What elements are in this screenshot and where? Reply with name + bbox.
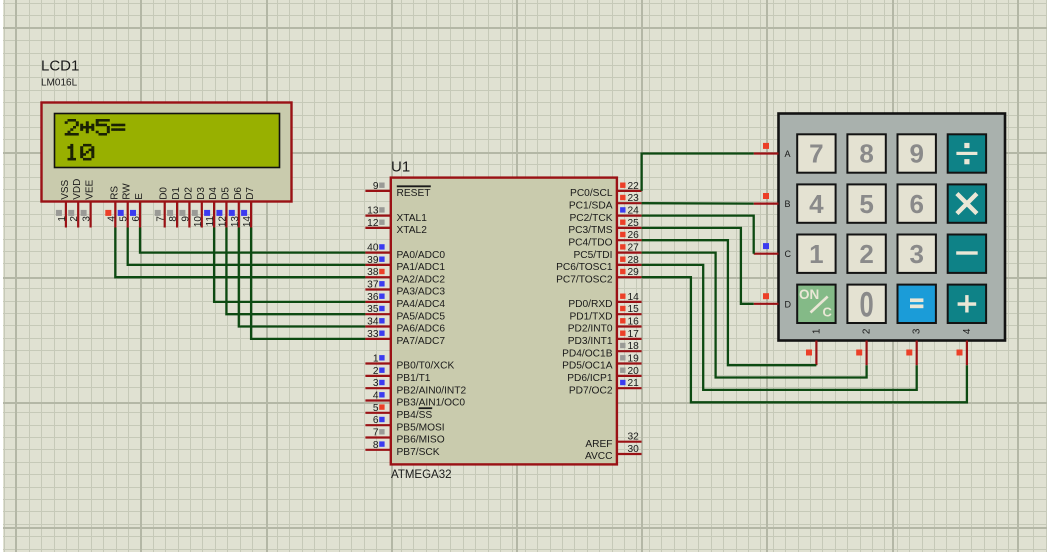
keypad row pin D	[754, 293, 792, 309]
U1 pin 30 (AVCC) right	[585, 444, 642, 462]
U1 pin 2 (PB1/T1) left	[365, 366, 430, 384]
svg-text:PC0/SCL: PC0/SCL	[570, 188, 613, 199]
svg-text:14: 14	[242, 216, 253, 228]
keypad button minus	[948, 235, 986, 273]
svg-text:PC7/TOSC2: PC7/TOSC2	[556, 274, 613, 285]
svg-text:PD6/ICP1: PD6/ICP1	[567, 373, 613, 384]
svg-text:7: 7	[373, 428, 379, 439]
U1 pin 14 (PD0/RXD) right	[568, 292, 641, 310]
svg-text:3: 3	[909, 239, 923, 269]
keypad button 4	[797, 184, 835, 222]
svg-text:30: 30	[628, 444, 640, 455]
svg-text:0: 0	[859, 285, 873, 324]
LCD1 pin 5 (RW)	[118, 183, 133, 228]
svg-text:2: 2	[373, 366, 379, 377]
svg-text:3: 3	[82, 216, 93, 222]
keypad row pin B	[754, 193, 791, 209]
LCD1 pin 10 (D3)	[192, 187, 207, 228]
U1 pin 15 (PD1/TXD) right	[569, 304, 641, 322]
svg-text:PD0/RXD: PD0/RXD	[568, 299, 612, 310]
svg-text:22: 22	[628, 181, 640, 192]
wire PC5 (pin 27) to keypad column 2	[642, 253, 867, 378]
svg-text:VSS: VSS	[60, 179, 71, 199]
svg-text:2: 2	[69, 216, 80, 222]
svg-text:PD1/TXD: PD1/TXD	[569, 311, 612, 322]
svg-text:PC3/TMS: PC3/TMS	[568, 225, 612, 236]
svg-text:40: 40	[367, 243, 379, 254]
U1 pin 7 (PB6/MISO) left	[365, 428, 444, 446]
LCD1 pin 12 (D5)	[216, 187, 231, 228]
svg-text:PB3/AIN1/OC0: PB3/AIN1/OC0	[397, 398, 466, 409]
svg-text:PA6/ADC6: PA6/ADC6	[397, 324, 446, 335]
svg-text:23: 23	[628, 193, 640, 204]
U1 pin 37 (PA3/ADC3) left	[365, 280, 445, 298]
svg-text:3: 3	[912, 328, 923, 334]
svg-text:C: C	[823, 305, 833, 320]
LCD1 pin 2 (VDD)	[68, 179, 83, 228]
keypad column pin 4	[957, 328, 973, 365]
svg-text:PD5/OC1A: PD5/OC1A	[562, 361, 613, 372]
LCD1 pin 4 (RS)	[105, 186, 120, 228]
U1 pin 38 (PA2/ADC2) left	[365, 267, 445, 285]
U1 pin 20 (PD6/ICP1) right	[567, 366, 641, 384]
svg-text:18: 18	[628, 341, 640, 352]
keypad button equals	[898, 285, 936, 323]
U1 pin 33 (PA7/ADC7) left	[365, 329, 445, 347]
svg-text:PB1/T1: PB1/T1	[397, 373, 431, 384]
svg-text:16: 16	[628, 317, 640, 328]
LCD1 pin 11 (D4)	[204, 187, 219, 228]
svg-text:RW: RW	[122, 183, 133, 200]
svg-text:8: 8	[373, 440, 379, 451]
svg-text:D7: D7	[245, 187, 256, 200]
svg-text:1: 1	[809, 239, 823, 269]
keypad button divide	[948, 134, 986, 172]
svg-text:B: B	[785, 199, 791, 209]
svg-text:6: 6	[909, 189, 923, 219]
LCD1 pin 1 (VSS)	[56, 179, 71, 227]
svg-text:4: 4	[373, 391, 379, 402]
svg-text:A: A	[785, 149, 791, 159]
svg-text:13: 13	[367, 206, 379, 217]
U1 pin 18 (PD4/OC1B) right	[562, 341, 641, 359]
wire PC6 (pin 28) to keypad column 3	[642, 265, 917, 390]
svg-text:AVCC: AVCC	[585, 451, 613, 462]
svg-text:D4: D4	[208, 187, 219, 200]
svg-text:36: 36	[367, 292, 379, 303]
LCD display text line 2: 10	[68, 144, 95, 161]
U1 pin 22 (PC0/SCL) right	[570, 181, 642, 199]
LCD1 pin 13 (D6)	[229, 187, 244, 228]
U1 pin 26 (PC4/TDO) right	[568, 230, 641, 248]
svg-text:PC1/SDA: PC1/SDA	[569, 200, 613, 211]
svg-text:13: 13	[230, 216, 241, 228]
svg-text:5: 5	[859, 189, 873, 219]
svg-text:PD2/INT0: PD2/INT0	[568, 324, 613, 335]
svg-text:PB7/SCK: PB7/SCK	[397, 447, 440, 458]
wire PC0 (pin 22) to keypad row A	[642, 154, 754, 191]
svg-text:PC2/TCK: PC2/TCK	[569, 213, 612, 224]
keypad button ON/C	[797, 285, 835, 323]
svg-text:29: 29	[628, 267, 640, 278]
svg-text:D1: D1	[171, 187, 182, 200]
U1 pin 29 (PC7/TOSC2) right	[556, 267, 642, 285]
wire PC4 (pin 26) to keypad column 1	[642, 240, 817, 365]
U1 pin 17 (PD3/INT1) right	[568, 329, 642, 347]
svg-text:6: 6	[131, 216, 142, 222]
svg-text:4: 4	[106, 216, 117, 222]
svg-text:PA2/ADC2: PA2/ADC2	[397, 274, 446, 285]
U1 pin 23 (PC1/SDA) right	[569, 193, 642, 211]
svg-text:10: 10	[193, 216, 204, 228]
svg-text:PA3/ADC3: PA3/ADC3	[397, 287, 446, 298]
keypad button plus	[948, 285, 986, 323]
svg-text:2: 2	[859, 239, 873, 269]
svg-text:25: 25	[628, 218, 640, 229]
svg-text:7: 7	[156, 216, 167, 222]
svg-text:D6: D6	[233, 187, 244, 200]
svg-text:PC6/TOSC1: PC6/TOSC1	[556, 262, 613, 273]
U1 pin 13 (XTAL1) left	[365, 206, 427, 224]
svg-text:9: 9	[373, 181, 379, 192]
svg-text:12: 12	[217, 216, 228, 228]
svg-text:U1: U1	[391, 159, 410, 176]
U1 pin 28 (PC6/TOSC1) right	[556, 255, 642, 273]
svg-text:E: E	[134, 193, 145, 200]
U1 pin 5 (PB4/SS) left	[365, 403, 432, 421]
wire RS (LCD pin 4) to PA2	[115, 228, 365, 278]
svg-text:39: 39	[367, 255, 379, 266]
keypad button 1	[797, 235, 835, 273]
svg-text:35: 35	[367, 304, 379, 315]
svg-text:RESET: RESET	[397, 188, 431, 199]
svg-text:C: C	[785, 249, 792, 259]
svg-text:1: 1	[57, 216, 68, 222]
svg-text:5: 5	[373, 403, 379, 414]
keypad button 5	[847, 184, 885, 222]
keypad button 2	[847, 235, 885, 273]
svg-text:4: 4	[809, 189, 824, 219]
svg-text:6: 6	[373, 415, 379, 426]
svg-text:PB0/T0/XCK: PB0/T0/XCK	[397, 361, 455, 372]
wire PC7 (pin 29) to keypad column 4	[642, 277, 967, 402]
LCD1 pin 3 (VEE)	[81, 179, 96, 227]
keypad column pin 3	[906, 328, 922, 365]
keypad button 6	[898, 184, 936, 222]
U1 pin 39 (PA1/ADC1) left	[365, 255, 445, 273]
svg-text:33: 33	[367, 329, 379, 340]
svg-text:11: 11	[205, 216, 216, 227]
LCD display text line 1: 2*5=	[65, 119, 126, 136]
keypad button 7	[797, 134, 835, 172]
U1 pin 8 (PB7/SCK) left	[365, 440, 439, 458]
wire RW (LCD pin 5) to PA1	[128, 228, 366, 265]
svg-text:17: 17	[628, 329, 640, 340]
wire E (LCD pin 6) to PA0	[140, 228, 365, 253]
svg-text:15: 15	[628, 304, 640, 315]
wire D7 (LCD pin 14) to PA7	[251, 228, 365, 339]
svg-text:20: 20	[628, 366, 640, 377]
U1 pin 19 (PD5/OC1A) right	[562, 354, 641, 372]
svg-text:D0: D0	[159, 187, 170, 200]
keypad button 8	[847, 134, 885, 172]
LCD1 pin 14 (D7)	[241, 187, 256, 228]
svg-text:4: 4	[962, 328, 973, 334]
svg-text:8: 8	[168, 216, 179, 222]
svg-text:VDD: VDD	[72, 179, 83, 200]
wire PC2 (pin 24) to keypad row C	[642, 216, 754, 254]
U1 pin 40 (PA0/ADC0) left	[365, 243, 445, 261]
svg-text:PD4/OC1B: PD4/OC1B	[562, 348, 613, 359]
U1 pin 35 (PA5/ADC5) left	[365, 304, 445, 322]
svg-text:AREF: AREF	[585, 439, 612, 450]
LCD1 pin 8 (D1)	[167, 187, 182, 228]
U1 pin 27 (PC5/TDI) right	[573, 243, 641, 261]
LCD1 pin 6 (E)	[130, 193, 145, 228]
svg-text:D: D	[785, 299, 792, 309]
wire PC1 (pin 23) to keypad row B	[642, 202, 754, 205]
svg-text:LCD1: LCD1	[41, 58, 79, 75]
svg-text:VEE: VEE	[85, 179, 96, 199]
U1 pin 21 (PD7/OC2) right	[569, 378, 642, 396]
svg-text:PA5/ADC5: PA5/ADC5	[397, 311, 446, 322]
keypad button 3	[898, 235, 936, 273]
svg-text:34: 34	[367, 317, 379, 328]
svg-text:28: 28	[628, 255, 640, 266]
wire D6 (LCD pin 13) to PA6	[239, 228, 366, 327]
U1 pin 34 (PA6/ADC6) left	[365, 317, 445, 335]
svg-text:1: 1	[373, 354, 379, 365]
U1 pin 25 (PC3/TMS) right	[568, 218, 641, 236]
LCD1 pin 7 (D0)	[155, 187, 170, 228]
U1 pin 12 (XTAL2) left	[365, 218, 427, 236]
svg-text:XTAL2: XTAL2	[397, 225, 428, 236]
wire D4 (LCD pin 11) to PA4	[214, 228, 365, 302]
svg-text:27: 27	[628, 243, 640, 254]
svg-text:PA0/ADC0: PA0/ADC0	[397, 250, 446, 261]
svg-text:PB5/MOSI: PB5/MOSI	[397, 422, 445, 433]
keypad column pin 2	[856, 328, 872, 365]
keypad body	[779, 114, 1006, 341]
svg-text:PA4/ADC4: PA4/ADC4	[397, 299, 446, 310]
svg-text:19: 19	[628, 354, 640, 365]
U1 pin 9 (RESET) left	[365, 181, 430, 199]
svg-text:14: 14	[628, 292, 640, 303]
U1 pin 36 (PA4/ADC4) left	[365, 292, 445, 310]
svg-text:21: 21	[628, 378, 640, 389]
LCD LCD1 body	[42, 103, 292, 202]
U1 pin 6 (PB5/MOSI) left	[365, 415, 444, 433]
svg-text:PB2/AIN0/INT2: PB2/AIN0/INT2	[397, 385, 467, 396]
svg-text:PD7/OC2: PD7/OC2	[569, 385, 613, 396]
U1 pin 4 (PB3/AIN1/OC0) left	[365, 391, 465, 409]
svg-text:26: 26	[628, 230, 640, 241]
svg-text:1: 1	[811, 328, 822, 334]
svg-text:9: 9	[180, 216, 191, 222]
wire D5 (LCD pin 12) to PA5	[226, 228, 365, 315]
keypad row pin A	[754, 143, 791, 159]
svg-text:PA7/ADC7: PA7/ADC7	[397, 336, 446, 347]
svg-text:D2: D2	[183, 187, 194, 200]
LCD1 pin 9 (D2)	[179, 187, 194, 228]
LCD LCD1 screen	[55, 114, 280, 168]
svg-text:24: 24	[628, 206, 640, 217]
U1 pin 1 (PB0/T0/XCK) left	[365, 354, 454, 372]
svg-text:32: 32	[628, 432, 640, 443]
svg-text:3: 3	[373, 378, 379, 389]
svg-text:PC5/TDI: PC5/TDI	[573, 250, 612, 261]
svg-text:12: 12	[367, 218, 379, 229]
svg-text:9: 9	[909, 139, 923, 169]
svg-text:7: 7	[809, 139, 823, 169]
svg-text:PD3/INT1: PD3/INT1	[568, 336, 613, 347]
svg-text:LM016L: LM016L	[41, 78, 78, 89]
svg-text:5: 5	[119, 216, 130, 222]
svg-text:XTAL1: XTAL1	[397, 213, 428, 224]
keypad row pin C	[754, 243, 792, 259]
svg-text:ATMEGA32: ATMEGA32	[391, 469, 452, 481]
svg-text:D3: D3	[196, 187, 207, 200]
keypad column pin 1	[806, 328, 822, 365]
svg-text:RS: RS	[109, 186, 120, 200]
U1 pin 24 (PC2/TCK) right	[569, 206, 641, 224]
microcontroller U1 body	[391, 178, 617, 465]
U1 pin 3 (PB2/AIN0/INT2) left	[365, 378, 466, 396]
U1 pin 32 (AREF) right	[585, 432, 641, 450]
svg-text:PB6/MISO: PB6/MISO	[397, 435, 445, 446]
svg-text:2: 2	[862, 328, 873, 334]
svg-text:PC4/TDO: PC4/TDO	[568, 237, 612, 248]
svg-text:PA1/ADC1: PA1/ADC1	[397, 262, 446, 273]
svg-text:D5: D5	[220, 187, 231, 200]
svg-text:PB4/SS: PB4/SS	[397, 410, 433, 421]
wire PC3 (pin 25) to keypad row D	[642, 228, 754, 304]
keypad button 9	[898, 134, 936, 172]
svg-text:37: 37	[367, 280, 379, 291]
svg-text:8: 8	[859, 139, 873, 169]
keypad button multiply	[948, 184, 986, 222]
svg-text:ON: ON	[799, 287, 819, 302]
keypad button 0	[847, 285, 885, 325]
U1 pin 16 (PD2/INT0) right	[568, 317, 642, 335]
svg-text:38: 38	[367, 267, 379, 278]
